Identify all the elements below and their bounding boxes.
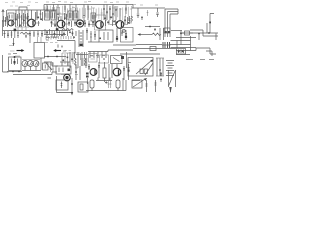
IF transformer T1 [45, 11, 57, 20]
wire V5 plate [119, 8, 121, 21]
shield box V4 [95, 15, 106, 30]
capacitor C35 [146, 80, 148, 92]
capacitor C32 [160, 78, 162, 82]
tick row osc [46, 36, 74, 40]
label small mark [48, 77, 52, 79]
capacitor C10 [4, 31, 6, 38]
wire right step [190, 30, 218, 36]
tube V4 [96, 21, 104, 29]
plug bracket 2 [206, 51, 212, 56]
wire v8 stubs [109, 64, 117, 80]
resistor R7 [17, 31, 19, 38]
resistor R8 horizontal zigzag [20, 32, 30, 34]
wire top bus A [44, 4, 133, 6]
wire audio stubs [90, 52, 106, 59]
wire right verticals [181, 31, 216, 45]
capacitor C5 [83, 5, 85, 23]
resistor R6 [11, 31, 13, 38]
tube V5 [116, 21, 124, 29]
wire bracket [96, 78, 112, 81]
wire top bus right segment [132, 7, 165, 9]
capacitor C14 [29, 31, 31, 37]
dial arrow left [53, 49, 61, 52]
wire osc link [57, 41, 75, 54]
socket box mid [100, 55, 109, 63]
wire V1 plate [31, 10, 33, 19]
wire bottom strip top rail [44, 56, 66, 58]
capacitor pair mid-bottom [108, 81, 112, 89]
capacitor C16 [41, 31, 43, 37]
wire to nested loop [145, 26, 160, 28]
wire bus bump [19, 7, 27, 10]
label text osc [46, 38, 56, 41]
first audio box [56, 80, 68, 90]
resistor R10 horizontal zigzag [62, 29, 73, 31]
junction dot B [208, 32, 210, 34]
capacitor C26 [60, 62, 70, 66]
wire band stub [86, 78, 88, 84]
bias cluster [78, 82, 88, 92]
dial arrow right [17, 49, 25, 52]
wire left drop 1 [13, 38, 15, 46]
blob volume right [121, 56, 124, 59]
capacitor C18 [86, 28, 88, 40]
grid cap ticks V6 [61, 68, 78, 75]
wire ground drop [71, 78, 73, 96]
wire T2 drops [70, 5, 76, 12]
IF strip tick texture [46, 9, 132, 17]
wire gang drops [25, 67, 36, 71]
label text mid [63, 50, 66, 52]
wire gang top rail [22, 59, 40, 61]
wire top bus B left [7, 9, 57, 11]
capacitor bank left [4, 13, 28, 27]
resistor R5 vertical zigzag [131, 16, 133, 24]
hatch block [81, 59, 88, 65]
junction dot D [47, 56, 49, 58]
resistor R4 [125, 5, 127, 15]
transformer ladder [79, 30, 83, 47]
wire out rail mid [120, 53, 160, 55]
label text osc rows [45, 43, 71, 51]
arrowhead drop [13, 43, 15, 46]
socket box left [89, 54, 98, 63]
label text audio [90, 55, 105, 57]
junction dots gang [12, 71, 20, 73]
capacitor bank mid2 [52, 13, 76, 27]
pot arrow diagonal [136, 59, 153, 74]
capacitor C7 [137, 8, 139, 18]
capacitor C31 [160, 72, 162, 76]
resistor R15 box [103, 68, 106, 78]
coil L1 stubs [16, 10, 25, 20]
wire V2 plate [60, 16, 62, 20]
speaker bars [156, 58, 164, 76]
volume box [111, 56, 123, 64]
wire out top [133, 48, 176, 50]
antenna [2, 10, 4, 22]
hanger comps left [18, 28, 63, 49]
gang capacitor section 3 [33, 61, 39, 67]
junction dot A [149, 26, 151, 28]
junction dot F [75, 71, 77, 73]
resistor R11 [90, 31, 92, 42]
electrolytic C34 [116, 80, 120, 91]
label dashes mid-left [9, 46, 20, 57]
capacitor bank row2 [45, 29, 76, 37]
mixer box [56, 66, 71, 74]
capacitor bank mid5 [125, 16, 128, 24]
wire power stub [176, 41, 178, 49]
wire bus jog [132, 5, 134, 9]
wire avc line [88, 41, 99, 43]
wire mid bus segment [44, 34, 66, 36]
wire bottom bus 2 [13, 72, 57, 75]
tube V6 [64, 74, 71, 81]
padder verticals [50, 62, 55, 72]
trimmer component [41, 58, 48, 70]
label specks row2 [57, 7, 115, 10]
capacitor C28 [98, 62, 100, 78]
wire audio left rail [57, 76, 73, 93]
resistor pair boxes [140, 69, 147, 74]
resistor R14 vertical zigzag [85, 52, 87, 68]
resistor R13 vertical zigzag [75, 52, 77, 68]
wire to power [171, 47, 197, 49]
capacitor bank mid4 [106, 20, 116, 26]
capacitor C3 [40, 10, 42, 20]
coupling box [34, 43, 45, 59]
blob dots mid4 [104, 17, 118, 24]
resistor R2 [64, 5, 66, 13]
tube V3 [76, 20, 83, 27]
capacitor C8 [141, 16, 143, 20]
capacitor C30 [128, 64, 130, 80]
wire gang bottom [22, 70, 41, 72]
wire right stubs [160, 28, 164, 40]
electrolytic bands [86, 73, 89, 78]
wire mid stubs [47, 31, 62, 39]
resistor R12 horizontal zigzag [152, 33, 161, 36]
diagonal wire [46, 63, 52, 70]
blob mixer right [68, 69, 71, 72]
wire right bus [180, 32, 218, 34]
small box out [150, 47, 156, 51]
capacitor C8b [147, 10, 149, 16]
wire under-tube bus left [3, 30, 71, 32]
capacitor C4 [57, 5, 59, 21]
capacitor bank mid3 [85, 20, 96, 27]
wire V6 leads [76, 64, 80, 80]
junction dot G [159, 69, 161, 71]
blob dots row2 [46, 32, 101, 40]
field coil zigzag [169, 70, 176, 93]
wire power rails [176, 48, 204, 55]
wire bottom strip rail start [76, 54, 88, 56]
wire audio rail [62, 52, 80, 54]
capacitor C19 [94, 31, 96, 40]
gang capacitor section 2 [28, 61, 34, 67]
IF transformer T3 [91, 13, 96, 21]
capacitor C15 [37, 31, 39, 37]
terminal cluster left [164, 28, 182, 33]
blob dots mid5 [124, 20, 129, 24]
junction dot E [56, 56, 58, 58]
tick row left [15, 17, 29, 27]
wire arrow feedback [138, 33, 153, 36]
capacitor C13 [25, 35, 27, 39]
rectifier cluster [177, 49, 186, 55]
wire trimmer leads [38, 37, 42, 43]
output transformer box [128, 58, 153, 77]
tube V2 [57, 20, 65, 28]
blob dots mid1 [37, 17, 42, 21]
junction dot H [71, 83, 73, 85]
capacitor C27 [88, 64, 90, 70]
label plus [105, 81, 108, 84]
nested loop wiring [165, 9, 178, 37]
capacitor C6 [129, 16, 131, 24]
wire r15 stubs [104, 62, 106, 82]
wire stub right [122, 78, 124, 91]
label text row top-left [5, 2, 38, 6]
wire verticals audio2 [62, 52, 87, 66]
capacitor C24 [180, 31, 193, 35]
label specks above bus [46, 2, 158, 6]
coil L2 cluster [103, 5, 117, 21]
wire power link rails [170, 41, 191, 45]
resistor R9 [33, 31, 35, 37]
resistor R3 [87, 5, 89, 21]
capacitor C21 [121, 30, 123, 36]
tone box [132, 78, 147, 88]
wire left edge drop [2, 20, 4, 36]
junction dot C [14, 56, 16, 58]
wire volume drop [126, 52, 128, 68]
tube V0 [8, 20, 14, 26]
blob dots audio [63, 57, 73, 62]
capacitor C9 [156, 8, 158, 17]
wire bottom of top strip [136, 44, 162, 46]
capacitor C23 [154, 28, 156, 31]
wire right rail mid [176, 37, 196, 39]
wire tube level stubs [7, 23, 129, 25]
label text 117v [186, 59, 214, 61]
wire verticals audio [70, 52, 82, 68]
plug bracket 1 [204, 48, 216, 54]
capacitor C2 [27, 10, 29, 20]
capacitor bank mid1 [36, 5, 45, 27]
capacitor C36 [155, 80, 157, 92]
capacitor C12 dark blob [14, 29, 17, 38]
cone diagonal [145, 63, 153, 75]
electrolytic C33 [90, 80, 94, 91]
capacitor C25 pair [162, 42, 171, 48]
resistor R1 [36, 10, 38, 20]
blob dots mid3 [84, 22, 94, 26]
tube V7 [90, 69, 97, 76]
wire left drop 2 [29, 37, 31, 43]
wire left edge bottom [3, 55, 9, 72]
wire antenna stub [6, 10, 8, 20]
wire power riser [190, 36, 192, 51]
tube V8 [113, 68, 121, 76]
wire T1 drops [47, 5, 54, 12]
battery stack [166, 61, 174, 76]
capacitor C20 [116, 28, 118, 42]
capacitor C1 tuning box [8, 13, 14, 20]
blob dots left [5, 18, 29, 27]
capacitor C22 [125, 30, 127, 40]
junction dots right [180, 33, 200, 35]
label text 50 [128, 62, 131, 64]
gang capacitor section 1 [22, 61, 28, 67]
wire bottom bus left [7, 71, 22, 73]
shield box V2 [57, 14, 67, 31]
tube V1 [28, 19, 36, 27]
IF transformer T2 [68, 11, 78, 20]
bracket wire right top [207, 14, 214, 34]
capacitor C29 [123, 66, 125, 80]
detector shield box [121, 28, 134, 43]
oscillator box [9, 57, 22, 71]
wire det out [113, 44, 136, 46]
wire bottom bus [86, 80, 126, 91]
blob dots mid2 [51, 18, 76, 27]
wire step bottom-left [44, 62, 58, 66]
IF strip hatch texture [45, 6, 131, 21]
capacitor C17 dark blob [56, 28, 59, 30]
wire bottom left rail [132, 80, 140, 82]
shield box detector [99, 30, 113, 42]
wire audio top rail [88, 50, 133, 52]
label text osc2 [8, 53, 17, 56]
capacitor C11 [7, 31, 9, 38]
